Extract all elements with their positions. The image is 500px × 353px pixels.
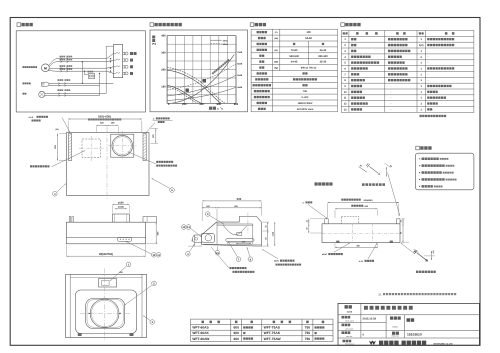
- switch wire chevrons and labels: [59, 82, 60, 84]
- svg-text:0~40C: 0~40C: [301, 96, 308, 99]
- title block: type/scale cell: [343, 340, 352, 343]
- rear view knockout phantom rect: [341, 216, 359, 224]
- bottom view outer rect: [66, 274, 147, 337]
- top view right mounting rail (hatched): [143, 134, 146, 161]
- svg-text:m: m: [217, 107, 219, 110]
- svg-text:ø150: ø150: [322, 253, 328, 256]
- accessories label: [416, 146, 420, 150]
- svg-text:WFT-75AK: WFT-75AK: [264, 331, 281, 335]
- noise curve high 50Hz: [167, 75, 236, 96]
- lamp symbol circle: [39, 91, 45, 97]
- P-Q curve high speed 50Hz: [167, 70, 221, 103]
- side view lip screw circle: [195, 237, 198, 240]
- front elevation panel split line: [66, 237, 145, 239]
- svg-text:390-340: 390-340: [318, 55, 328, 58]
- top view left dimension 225 (rotated): [59, 133, 66, 135]
- capacitor connection wire: [85, 71, 89, 74]
- svg-text:WFT-75AW: WFT-75AW: [264, 337, 282, 341]
- svg-text:530(/680): 530(/680): [364, 199, 373, 202]
- chart plot border: [167, 36, 236, 104]
- svg-text:(ø146): (ø146): [118, 206, 124, 209]
- motor wire runs to terminal block: [57, 58, 107, 60]
- svg-text:(Hz): (Hz): [274, 37, 278, 40]
- svg-text:M: M: [44, 66, 47, 70]
- svg-text:60Hz: 60Hz: [223, 43, 228, 46]
- left label: square knockout: [30, 165, 49, 167]
- parts table header: [343, 32, 348, 34]
- svg-text:15102610: 15102610: [407, 333, 422, 337]
- svg-text:600: 600: [233, 331, 239, 335]
- earth wire down from terminal block: [106, 46, 113, 93]
- bottom view big rounded panel: [75, 290, 136, 334]
- vertical link wire from motor wire to switch wire: [81, 62, 83, 84]
- svg-text:200: 200: [182, 103, 187, 106]
- filter crosshair horizontal: [80, 312, 130, 314]
- rear view right rail end: [397, 219, 400, 224]
- bottom view top seam line: [70, 276, 142, 278]
- capacitor symbol: [88, 74, 94, 79]
- side view left dim 70: [193, 235, 195, 246]
- top view vertical centerline: [106, 129, 108, 200]
- crimp terminals right of block: [123, 52, 125, 54]
- label: maintenance clearance (2 lines): [230, 267, 247, 269]
- front elevation height dim 600 (rotated): [147, 243, 158, 245]
- side view filter frame top band: [217, 223, 253, 225]
- title block outline: [338, 303, 479, 345]
- P-Q curve low speed 50Hz: [167, 85, 201, 103]
- side view fan inlet bell curve: [223, 225, 247, 235]
- side view lamp circle: [205, 235, 211, 241]
- lamp cover inner rect: [102, 280, 110, 285]
- circled 1 with leader to lamp cover: [126, 262, 131, 267]
- svg-text:200: 200: [161, 69, 166, 72]
- svg-text:50-60: 50-60: [305, 37, 312, 40]
- lamp wires: [45, 92, 106, 94]
- filter clip arrows: [89, 313, 92, 314]
- side view duct stub on top: [239, 217, 261, 223]
- svg-text:1(2): 1(2): [419, 44, 424, 47]
- motor lead wires fanning out: [49, 59, 57, 66]
- duct resistance curve rising diagonal: [172, 55, 234, 104]
- lamp label: [23, 93, 27, 95]
- y axis title (seiatsu Pa): [152, 36, 155, 43]
- top view left mounting rail (hatched): [68, 134, 71, 161]
- front elevation width dim W(600/750): [65, 245, 67, 256]
- svg-text:WATANABE CO.LTD: WATANABE CO.LTD: [434, 342, 454, 345]
- svg-text:W(600/750): W(600/750): [99, 253, 113, 256]
- circled 12 13 left of side view: [182, 225, 187, 230]
- front elevation right attachment: [143, 217, 157, 223]
- company name (Watanabe Seisakusho): [379, 341, 399, 345]
- circled 8 below with leader: [248, 257, 253, 262]
- leader to duct circle: [128, 152, 156, 164]
- circled ref right of top view: [170, 188, 175, 193]
- side view far right dim: [274, 222, 276, 246]
- screw detail bottom-right: vertical dim right: [431, 251, 433, 260]
- side view filter slats: [226, 239, 254, 242]
- terminal block: [113, 45, 122, 78]
- circled 5 with leader to filter: [152, 281, 157, 286]
- title block: drawing title (turbo fan outline): [364, 306, 413, 310]
- svg-text:-: -: [428, 62, 429, 65]
- svg-text:-: -: [428, 79, 429, 82]
- switch label: [23, 83, 31, 85]
- parts table: [341, 31, 474, 113]
- company logo mark: [369, 341, 376, 346]
- svg-text:-: -: [428, 56, 429, 59]
- wire connector chevrons on motor wires: [61, 58, 62, 60]
- svg-text:WFT-75AS: WFT-75AS: [264, 326, 281, 330]
- svg-text:750: 750: [305, 331, 311, 335]
- switch wires: [49, 82, 114, 84]
- front elevation duct stub: [112, 214, 129, 222]
- circled 4 lower left: [186, 252, 191, 257]
- svg-text:40dB: 40dB: [237, 86, 242, 89]
- svg-text:800: 800: [234, 103, 239, 106]
- svg-text:70-80: 70-80: [291, 49, 298, 52]
- svg-text:70: 70: [191, 239, 194, 241]
- duct stub dimension (o146): [115, 208, 127, 210]
- svg-text:WFT-60AS: WFT-60AS: [192, 326, 209, 330]
- svg-text:70K: 70K: [303, 90, 308, 93]
- rear view top dim2: pitch 530: [334, 210, 336, 218]
- circled 9 top of side view: [205, 212, 210, 217]
- title block: drawing number cell: [392, 332, 399, 335]
- svg-text:600:11 750:12: 600:11 750:12: [301, 67, 317, 70]
- svg-text:60dB: 60dB: [237, 63, 242, 66]
- fan motor M circle: [42, 64, 50, 72]
- svg-text:(kg): (kg): [274, 67, 278, 70]
- top view small dims 125/125: [96, 124, 107, 126]
- chart grid: [167, 36, 236, 104]
- svg-text:24-33: 24-33: [320, 49, 327, 52]
- side view top dim 500: [201, 202, 203, 221]
- wire color labels (black/white etc.): [60, 56, 66, 58]
- svg-text:600: 600: [233, 326, 239, 330]
- terminal wire name labels (earth/black/white/red): [130, 52, 137, 55]
- screw detail top-right: dim 40: [385, 163, 391, 168]
- vertical bus wire right side: [99, 73, 101, 95]
- front elevation body: [66, 222, 145, 244]
- switch panel on front: [118, 237, 132, 241]
- svg-text:400: 400: [199, 103, 204, 106]
- top view pitch note line 2: [88, 118, 121, 120]
- title block: name cell label: [345, 305, 352, 308]
- side view motor box: [237, 232, 242, 235]
- screw detail top-right: small vertical dim: [385, 167, 387, 177]
- rear view label: [315, 182, 333, 185]
- svg-text:WFT-60AK: WFT-60AK: [192, 331, 209, 335]
- leader to left rail: [62, 118, 70, 133]
- duct resistance curve label (rotated): [212, 59, 230, 75]
- right label: exhaust adapter (2 lines): [156, 161, 173, 163]
- rear view corner screw marks: [337, 241, 340, 243]
- svg-text:(25): (25): [55, 128, 59, 131]
- rear view left small dims: [308, 219, 310, 224]
- junction dots at terminal side: [110, 58, 111, 59]
- screw detail bottom-right: dim 40: [414, 249, 419, 253]
- svg-text:(V): (V): [275, 31, 278, 34]
- svg-text:35: 35: [264, 225, 267, 227]
- top view duct centerlines: [121, 131, 123, 161]
- svg-text:-: -: [428, 50, 429, 53]
- P-Q curve high speed 60Hz: [167, 68, 225, 104]
- svg-text:400: 400: [161, 35, 166, 38]
- svg-text:1MΩ DC500V: 1MΩ DC500V: [298, 102, 313, 105]
- svg-text:(25): (25): [432, 250, 435, 253]
- switch connector symbol: [42, 82, 49, 86]
- top view duct circle: [112, 135, 133, 156]
- top view body outline: [67, 133, 150, 196]
- section label: wiring diagram (kessen-zu): [17, 23, 21, 27]
- circled 7 below with leader: [236, 257, 241, 262]
- side view inner bottom line: [203, 243, 261, 245]
- rear view inner center dashes: [352, 224, 354, 243]
- noise curve low: [167, 87, 236, 100]
- circled ref lower-left of top view: [53, 192, 58, 197]
- side view right dims 35 and 85: [263, 221, 270, 223]
- side view front lip: [193, 235, 202, 242]
- filter rounded square inner: [87, 300, 123, 328]
- svg-text:(120): (120): [271, 231, 274, 236]
- knockout centerlines: [90, 136, 92, 161]
- leader to square knockout: [52, 151, 85, 167]
- rear view right side dims: [402, 219, 404, 224]
- label: strong mode: [203, 79, 207, 83]
- rear view main rect: [322, 224, 400, 243]
- svg-text:35-35: 35-35: [320, 61, 327, 64]
- rear view bottom dim 300: [335, 246, 378, 248]
- leader from bottom screw detail to rect: [401, 243, 415, 254]
- side view duct centerline: [247, 213, 249, 235]
- screw detail top-right: label: [362, 183, 385, 186]
- svg-text:540-540: 540-540: [289, 55, 299, 58]
- label: weak mode: [186, 89, 189, 92]
- accessories list lines: [419, 158, 420, 159]
- model table header: [201, 321, 220, 324]
- svg-text:ø150: ø150: [118, 201, 124, 204]
- svg-text:70dB: 70dB: [237, 51, 242, 54]
- side view dims 160/420: [216, 209, 218, 221]
- svg-text:530(~630): 530(~630): [98, 115, 111, 119]
- duct stub dimension o150: [112, 203, 129, 205]
- leader from switch to circled 10 11: [126, 242, 152, 255]
- svg-text:44-45: 44-45: [291, 61, 298, 64]
- svg-text:50: 50: [400, 232, 403, 234]
- filter rounded square outer: [86, 298, 125, 328]
- P-Q curve low speed 60Hz: [167, 87, 198, 103]
- top view round duct flange square: [111, 134, 134, 157]
- legend 50Hz / 60Hz: [211, 39, 222, 41]
- svg-text:25: 25: [305, 220, 308, 222]
- front elevation top-left mounting tabs: [69, 217, 71, 223]
- svg-text:100: 100: [161, 85, 166, 88]
- svg-text:50dB: 50dB: [237, 74, 242, 77]
- noise curve high 60Hz: [167, 64, 236, 90]
- accessories rounded box: [415, 153, 474, 190]
- screw detail bottom-right: screw icon: [413, 249, 429, 263]
- top view width dimension 530(-630): [67, 121, 69, 133]
- svg-text:500: 500: [237, 197, 242, 201]
- bottom view inner side lines: [69, 274, 71, 337]
- top view square duct knockout (dashed): [82, 139, 101, 158]
- svg-text:100: 100: [306, 31, 311, 34]
- filter circle: [90, 299, 119, 328]
- screw detail top-right: second arrow: [359, 167, 367, 173]
- spec-change note: [379, 293, 382, 296]
- screw detail bottom-right: label: [416, 271, 436, 273]
- svg-text:(Pa): (Pa): [152, 43, 156, 46]
- side view lamp housing: [202, 234, 215, 243]
- svg-text:(W): (W): [274, 49, 278, 52]
- x axis title (fuuryou m3/h): [209, 107, 216, 110]
- svg-text:2015.10.28: 2015.10.28: [363, 318, 377, 321]
- side view body outline: [202, 222, 262, 246]
- fan motor label: [23, 66, 38, 68]
- section label: characteristics table: [250, 23, 254, 27]
- leader from screw detail to rear rect corner: [388, 173, 400, 216]
- title block: revision number row: [342, 331, 351, 334]
- terminal chevron contacts inside block: [116, 52, 120, 53]
- lamp cover rect: [99, 279, 117, 287]
- lamp wire chevrons and labels: [59, 92, 60, 94]
- svg-text:50: 50: [305, 228, 308, 230]
- model table: [191, 319, 333, 341]
- svg-text:WFT-60AW: WFT-60AW: [192, 337, 210, 341]
- svg-text:AC1000V 1min: AC1000V 1min: [297, 108, 314, 111]
- rear view left rail end: [325, 219, 328, 224]
- svg-text:300: 300: [161, 52, 166, 55]
- title block: revision date row: [342, 324, 351, 327]
- svg-text:50Hz: 50Hz: [223, 39, 228, 42]
- circled 23 below body: [215, 250, 220, 255]
- chart border box: [150, 30, 248, 112]
- title block: model cell: [390, 317, 401, 320]
- svg-text:NAME: NAME: [347, 311, 353, 314]
- characteristics table contents: [257, 31, 267, 33]
- circled 2 with leader to panel edge: [150, 320, 155, 325]
- svg-text:25: 25: [400, 220, 403, 222]
- top view right dimension 120 (rotated): [151, 128, 159, 130]
- top-right label: 2-power outlet (2 lines): [153, 119, 173, 121]
- side view interior verticals: [216, 222, 218, 244]
- svg-text:85: 85: [264, 237, 267, 239]
- characteristics table: [251, 29, 337, 112]
- filter crosshair vertical: [104, 269, 106, 342]
- svg-text:600: 600: [233, 337, 239, 341]
- svg-text:(dB): (dB): [274, 61, 278, 64]
- note below parts table: [420, 115, 447, 117]
- section label: characteristics / air-flow curves: [150, 23, 154, 27]
- wiring diagram border box: [16, 31, 145, 112]
- svg-text:750: 750: [305, 326, 311, 330]
- rear view top dim: wall bracket pitch 530(/680): [327, 204, 329, 219]
- title block: created date row: [342, 316, 351, 319]
- svg-text:750: 750: [305, 337, 311, 341]
- svg-text:ø150: ø150: [274, 260, 280, 263]
- svg-text:-: -: [428, 73, 429, 76]
- section label: parts list table: [341, 23, 345, 27]
- screw detail top-right: screw icon: [366, 163, 381, 176]
- bottom feet marks: [78, 334, 81, 336]
